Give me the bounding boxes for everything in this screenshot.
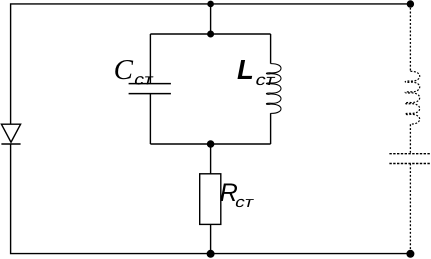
svg-text:C: C	[114, 54, 134, 86]
svg-text:L: L	[237, 54, 254, 85]
